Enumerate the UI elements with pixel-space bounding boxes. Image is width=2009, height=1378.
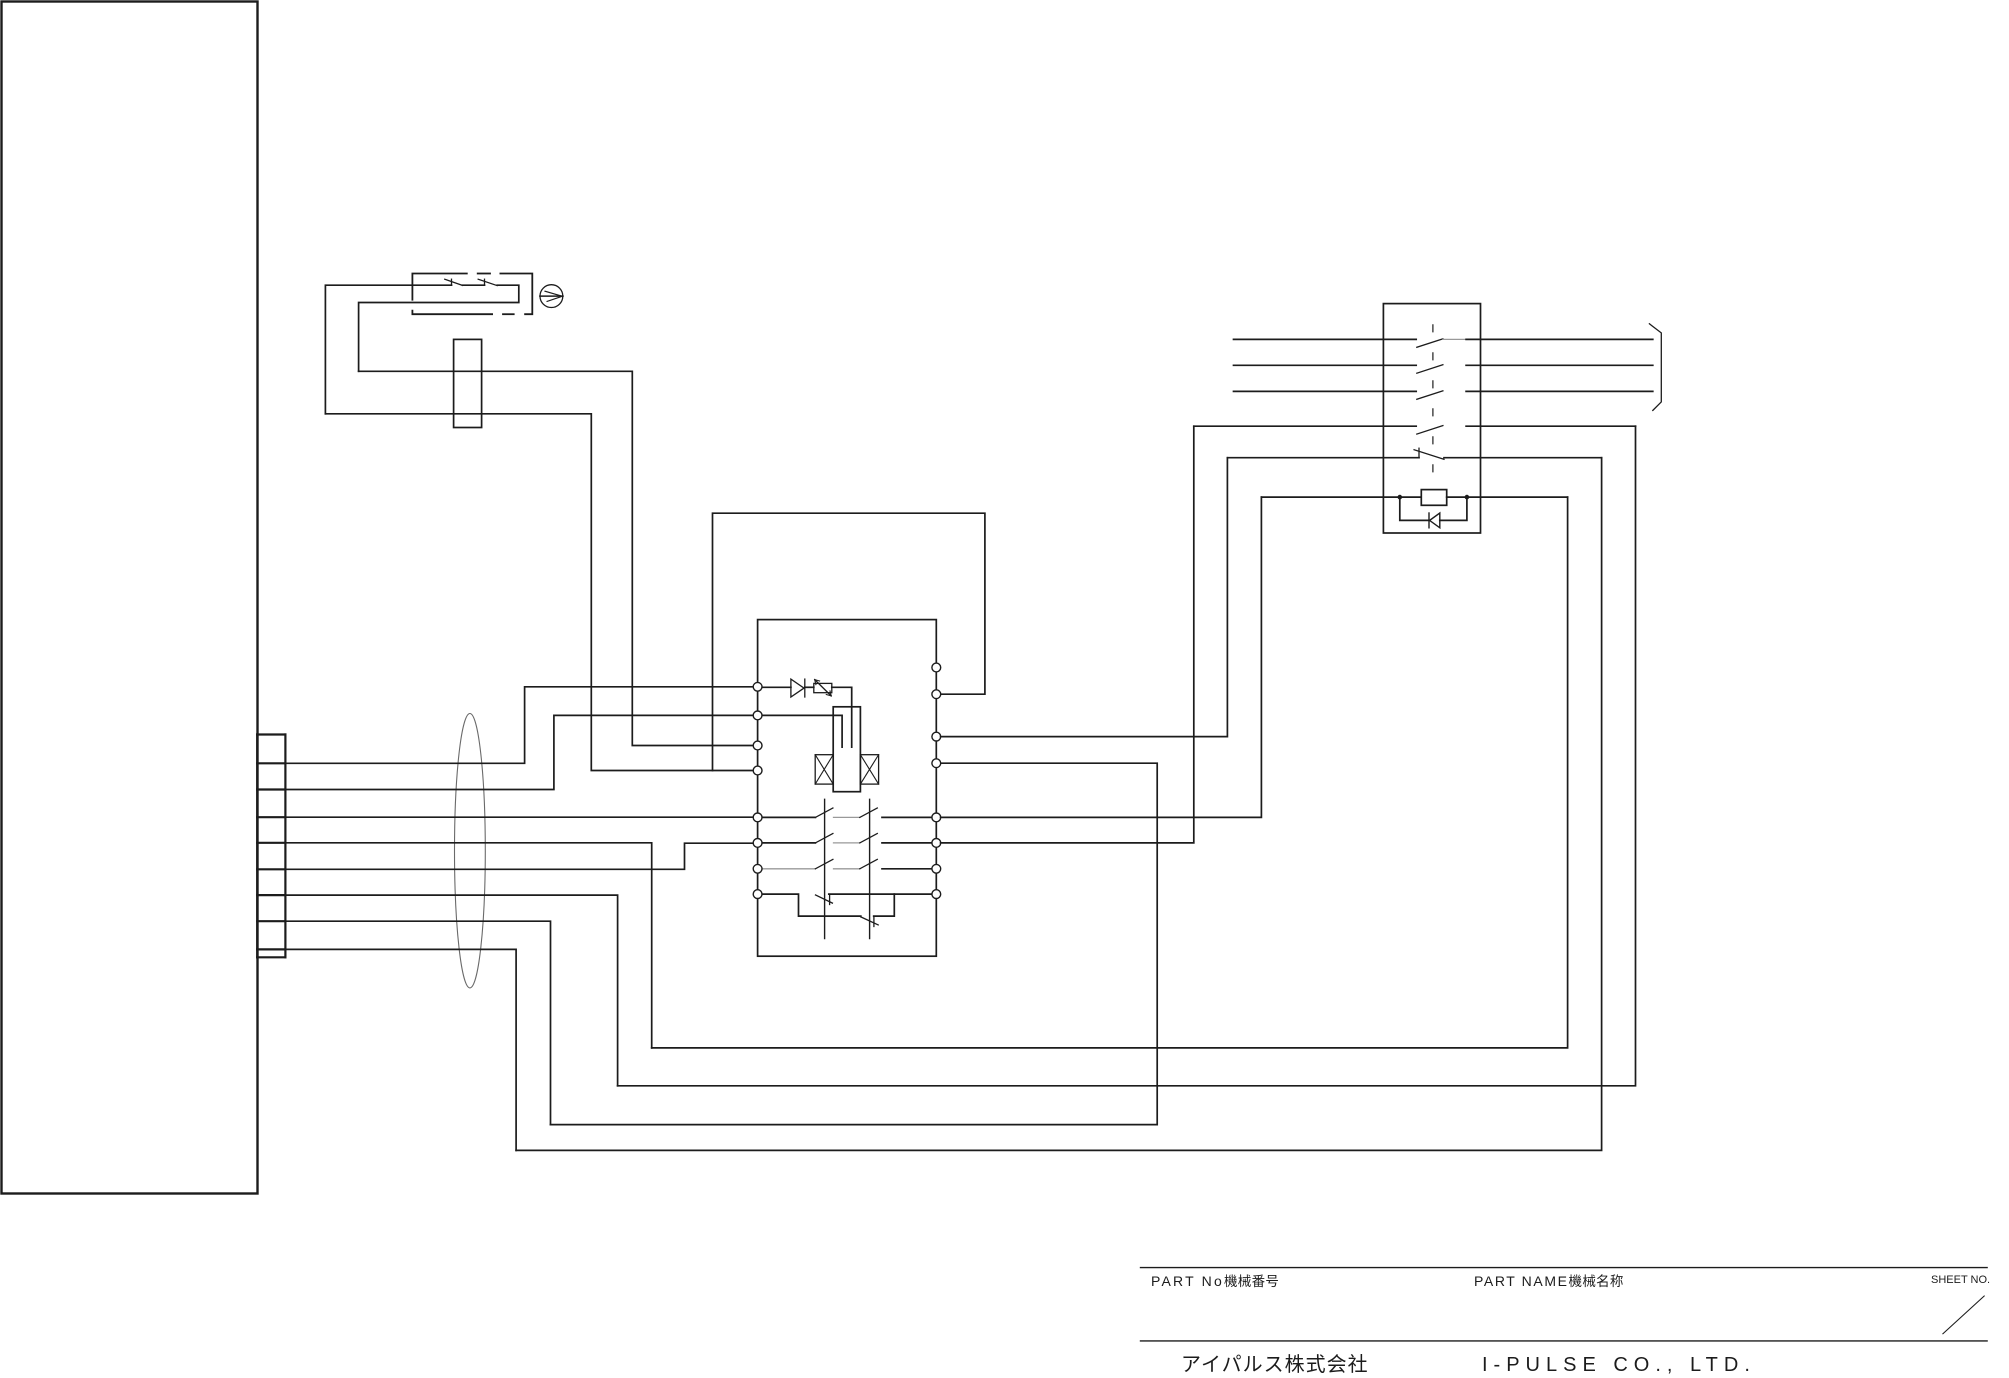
wire varistor to coil	[832, 687, 852, 747]
wire bottom run to contactor terminal R4	[551, 763, 1158, 1124]
left panel enclosure	[2, 2, 258, 1194]
contactor auxiliary NC contact row	[762, 894, 861, 916]
switch S1 pole 2	[484, 279, 486, 285]
disconnect switch S1 enclosure (dashed)	[412, 274, 532, 315]
wire terminal L2 to coil	[762, 715, 842, 747]
sheet no slash	[1943, 1296, 1985, 1335]
contactor main contact row 2	[762, 842, 816, 844]
wire TB1-4 down to bottom run	[285, 843, 651, 1048]
switch S1 output wire loop	[359, 285, 519, 371]
svg-text:PART No機械番号: PART No機械番号	[1151, 1273, 1279, 1289]
relay contact row 4	[1194, 425, 1416, 427]
cable bundle ellipse	[455, 714, 486, 988]
svg-text:SHEET NO.: SHEET NO.	[1931, 1274, 1990, 1286]
wire contactor R6 to relay row4 left	[941, 426, 1194, 843]
varistor RV1	[805, 686, 814, 688]
wire TB1-2 to contactor terminal L2	[285, 715, 753, 789]
flyback diode D2 across relay coil	[1400, 497, 1429, 520]
relay linkage dashed line	[1432, 325, 1434, 477]
relay contact row 1	[1234, 338, 1417, 340]
junction node coil right	[1465, 495, 1470, 500]
diode D1	[762, 686, 791, 688]
wire F1 feed to contactor terminal L3	[359, 371, 754, 745]
switch S1 pole 1	[451, 279, 453, 285]
contactor main contact row 3	[762, 868, 816, 870]
relay contact row 2	[1234, 364, 1417, 366]
wire contactor R5 to relay coil left	[941, 497, 1262, 817]
relay contact row 3	[1234, 390, 1417, 392]
contactor MC enclosure	[758, 620, 937, 957]
junction node coil left	[1398, 495, 1403, 500]
wire bottom run to relay coil right	[652, 497, 1568, 1048]
svg-text:I-PULSE CO., LTD.: I-PULSE CO., LTD.	[1482, 1354, 1756, 1376]
title block	[1140, 1268, 1988, 1341]
contactor coil MC	[833, 707, 860, 792]
wire TB1-5 step up to contactor terminal L6	[285, 843, 753, 869]
control box upper enclosure	[713, 513, 985, 770]
operator handle symbol	[540, 285, 563, 308]
switch S1 input wire	[325, 285, 451, 414]
relay coil RY1	[1261, 496, 1421, 498]
wire TB1-6 down to bottom run	[285, 895, 617, 1086]
contactor terminal circles right	[932, 663, 941, 898]
wire contactor R3 to relay row5	[941, 458, 1228, 737]
wire TB1-3 to contactor terminal L5	[285, 816, 753, 818]
contactor main contact row 1	[762, 816, 816, 818]
wire bottom run to relay contact row4 right	[618, 426, 1636, 1086]
cable continuation brace	[1649, 324, 1661, 411]
wire TB1-1 to contactor terminal L1	[285, 687, 753, 764]
contactor terminal circles left	[753, 682, 762, 898]
terminal block TB1 outline	[257, 735, 285, 958]
title block lower rule	[1140, 1340, 1988, 1342]
relay NC contact row 5	[1228, 457, 1419, 459]
wire F2 feed to contactor terminal L4	[325, 414, 753, 771]
switch S1 link wire	[463, 284, 485, 286]
wire TB1-7 down to bottom run	[285, 921, 550, 1124]
wire TB1-8 down to bottom run	[285, 949, 516, 1150]
svg-text:PART NAME機械名称: PART NAME機械名称	[1474, 1273, 1624, 1289]
relay RY1 enclosure	[1383, 304, 1480, 533]
fuse holder F1	[454, 339, 482, 427]
title block upper rule	[1140, 1267, 1988, 1269]
wire bottom run to relay contact row5 right	[516, 458, 1602, 1151]
svg-text:アイパルス株式会社: アイパルス株式会社	[1181, 1353, 1369, 1376]
contactor linkage bars	[824, 799, 826, 938]
